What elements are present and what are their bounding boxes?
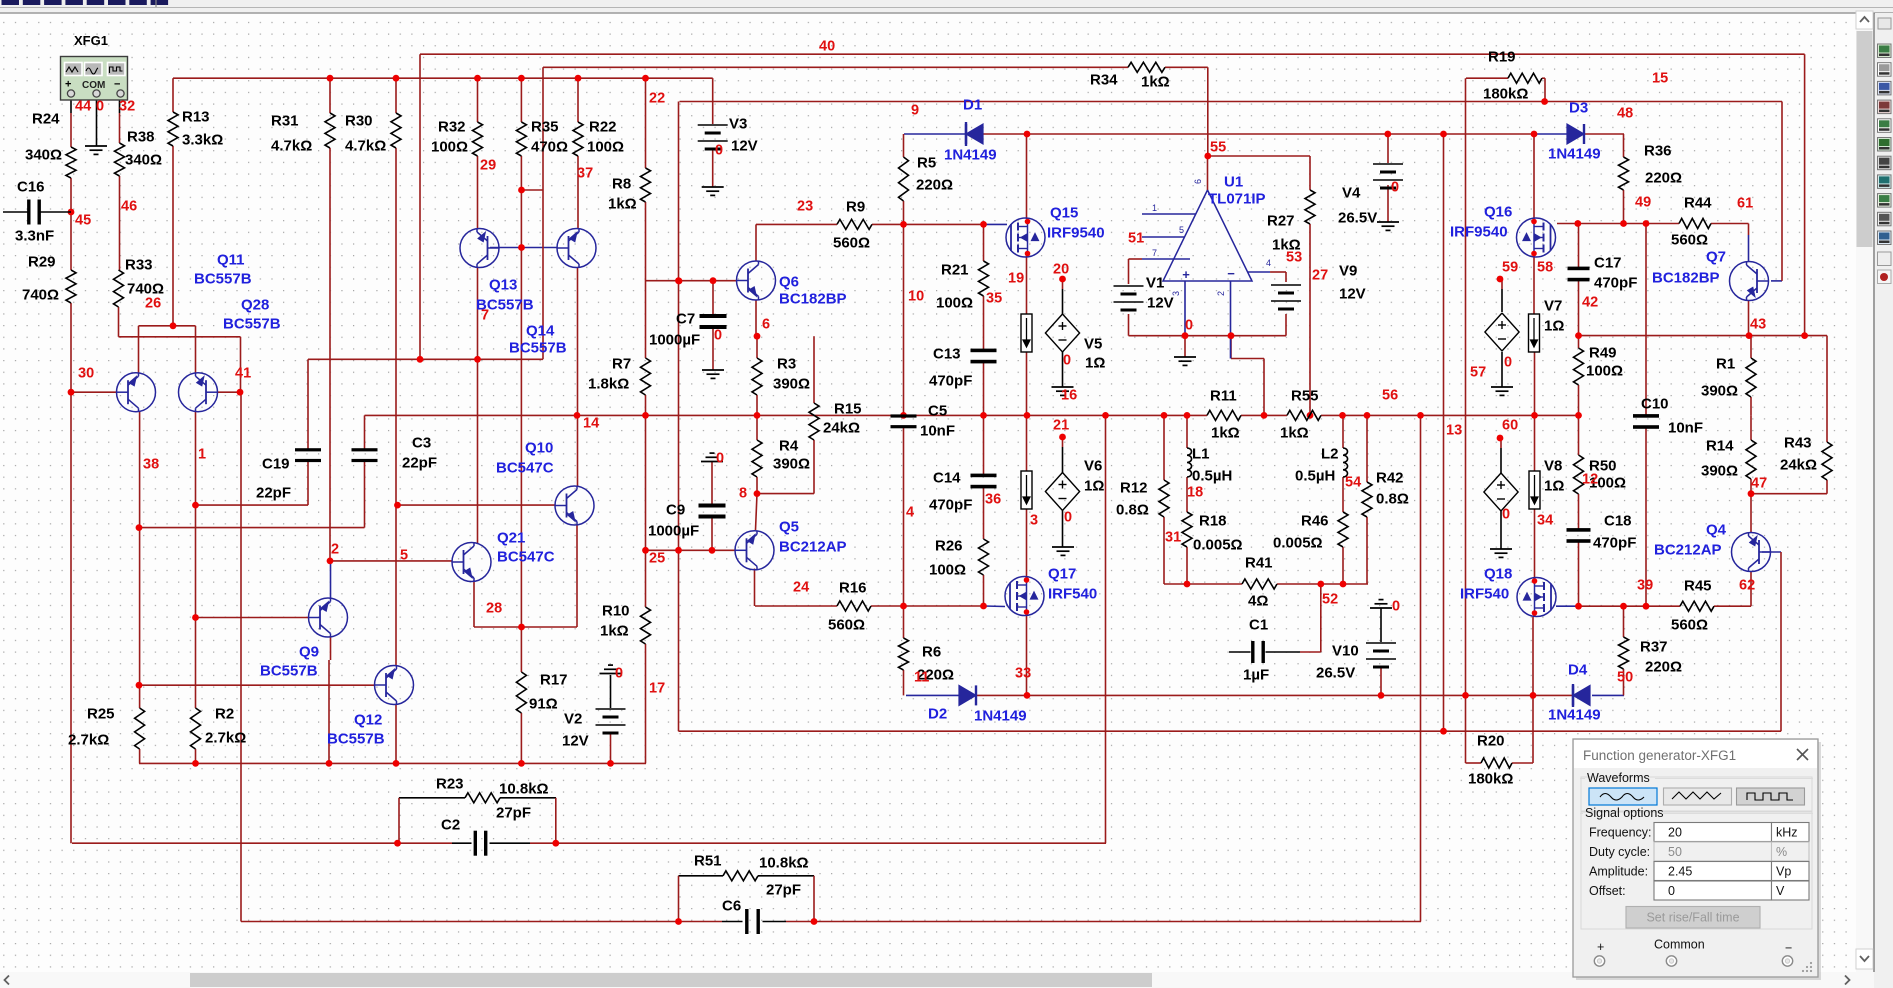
svg-text:BC557B: BC557B (223, 316, 281, 333)
svg-text:Offset:: Offset: (1589, 884, 1626, 898)
svg-text:C14: C14 (933, 470, 961, 487)
svg-text:R6: R6 (922, 644, 941, 661)
svg-text:BC182BP: BC182BP (1652, 270, 1720, 287)
svg-text:Q28: Q28 (241, 297, 269, 314)
svg-text:0: 0 (714, 327, 722, 343)
svg-text:25: 25 (649, 550, 665, 566)
svg-text:Q4: Q4 (1706, 522, 1727, 539)
svg-text:1N4149: 1N4149 (974, 708, 1027, 725)
svg-text:Q15: Q15 (1050, 205, 1078, 222)
svg-text:39: 39 (1637, 577, 1653, 593)
svg-text:Q13: Q13 (489, 277, 517, 294)
svg-text:0: 0 (1668, 884, 1675, 898)
svg-text:24: 24 (793, 579, 809, 595)
svg-text:Q12: Q12 (354, 712, 382, 729)
svg-text:0: 0 (615, 665, 623, 681)
svg-text:Q21: Q21 (497, 530, 525, 547)
svg-text:56: 56 (1382, 387, 1398, 403)
svg-text:40: 40 (819, 38, 835, 54)
svg-text:3.3kΩ: 3.3kΩ (182, 132, 223, 149)
svg-text:560Ω: 560Ω (833, 235, 870, 252)
svg-text:470pF: 470pF (929, 497, 972, 514)
svg-text:12V: 12V (562, 733, 589, 750)
svg-text:R38: R38 (127, 129, 155, 146)
svg-text:470pF: 470pF (1593, 535, 1636, 552)
svg-text:−: − (1785, 941, 1792, 955)
svg-text:100Ω: 100Ω (587, 139, 624, 156)
svg-text:0.5µH: 0.5µH (1295, 468, 1335, 485)
svg-text:22pF: 22pF (402, 455, 437, 472)
svg-text:R51: R51 (694, 853, 722, 870)
svg-text:R41: R41 (1245, 555, 1273, 572)
svg-text:27: 27 (1312, 267, 1328, 283)
svg-text:51: 51 (1128, 230, 1144, 246)
svg-text:V4: V4 (1342, 185, 1361, 202)
svg-text:R14: R14 (1706, 438, 1734, 455)
svg-text:390Ω: 390Ω (1701, 463, 1738, 480)
svg-text:R20: R20 (1477, 733, 1505, 750)
svg-text:V9: V9 (1339, 263, 1357, 280)
svg-text:0: 0 (1391, 179, 1399, 195)
svg-text:1.8kΩ: 1.8kΩ (588, 376, 629, 393)
svg-text:R12: R12 (1120, 480, 1148, 497)
svg-text:R18: R18 (1199, 513, 1227, 530)
svg-text:R43: R43 (1784, 435, 1812, 452)
svg-text:R15: R15 (834, 401, 862, 418)
svg-text:4.7kΩ: 4.7kΩ (271, 138, 312, 155)
svg-text:20: 20 (1668, 826, 1682, 840)
svg-text:0.005Ω: 0.005Ω (1273, 535, 1323, 552)
svg-text:13: 13 (1446, 422, 1462, 438)
svg-text:0: 0 (715, 142, 723, 158)
svg-text:0.005Ω: 0.005Ω (1193, 537, 1243, 554)
svg-text:R46: R46 (1301, 513, 1329, 530)
svg-text:V2: V2 (564, 711, 582, 728)
svg-text:26.5V: 26.5V (1316, 665, 1355, 682)
svg-text:4Ω: 4Ω (1248, 593, 1268, 610)
svg-text:0: 0 (1063, 352, 1071, 368)
svg-text:1N4149: 1N4149 (944, 147, 997, 164)
svg-text:BC557B: BC557B (194, 271, 252, 288)
svg-text:45: 45 (75, 212, 91, 228)
svg-text:3: 3 (1030, 512, 1038, 528)
svg-text:R25: R25 (87, 706, 115, 723)
svg-text:−: − (114, 79, 120, 91)
svg-text:R29: R29 (28, 254, 56, 271)
svg-text:10.8kΩ: 10.8kΩ (499, 781, 549, 798)
svg-text:Set rise/Fall time: Set rise/Fall time (1646, 911, 1739, 925)
svg-text:37: 37 (577, 165, 593, 181)
svg-text:R17: R17 (540, 672, 568, 689)
svg-text:Q9: Q9 (299, 644, 319, 661)
svg-text:Q17: Q17 (1048, 566, 1076, 583)
svg-text:2.45: 2.45 (1668, 865, 1692, 879)
svg-text:0: 0 (1504, 354, 1512, 370)
svg-text:U1: U1 (1224, 174, 1243, 191)
svg-text:24kΩ: 24kΩ (823, 420, 860, 437)
svg-text:BC182BP: BC182BP (779, 291, 847, 308)
svg-text:C3: C3 (412, 435, 431, 452)
svg-text:XFG1: XFG1 (74, 33, 108, 48)
svg-text:Q16: Q16 (1484, 204, 1512, 221)
svg-text:560Ω: 560Ω (828, 617, 865, 634)
svg-text:+: + (65, 79, 71, 91)
svg-text:R33: R33 (125, 257, 153, 274)
svg-text:D3: D3 (1569, 100, 1588, 117)
svg-text:560Ω: 560Ω (1671, 232, 1708, 249)
svg-text:7: 7 (1152, 248, 1157, 258)
svg-text:1Ω: 1Ω (1544, 318, 1564, 335)
svg-text:2: 2 (331, 541, 339, 557)
svg-text:R19: R19 (1488, 49, 1516, 66)
svg-text:BC557B: BC557B (327, 731, 385, 748)
svg-text:4: 4 (1266, 258, 1271, 268)
svg-text:Q10: Q10 (525, 440, 553, 457)
svg-text:C5: C5 (928, 403, 947, 420)
svg-text:R2: R2 (215, 706, 234, 723)
svg-text:7: 7 (481, 307, 489, 323)
svg-text:R21: R21 (941, 262, 969, 279)
svg-text:1kΩ: 1kΩ (1141, 74, 1170, 91)
svg-text:BC212AP: BC212AP (779, 539, 847, 556)
svg-text:IRF9540: IRF9540 (1047, 225, 1105, 242)
svg-text:R8: R8 (612, 176, 631, 193)
svg-text:50: 50 (1668, 845, 1682, 859)
svg-text:48: 48 (1617, 105, 1633, 121)
svg-text:0.8Ω: 0.8Ω (1376, 491, 1409, 508)
svg-text:2: 2 (1216, 291, 1226, 296)
svg-text:21: 21 (1053, 417, 1069, 433)
svg-text:2.7kΩ: 2.7kΩ (68, 732, 109, 749)
svg-text:50: 50 (1617, 669, 1633, 685)
svg-text:R31: R31 (271, 113, 299, 130)
svg-text:R32: R32 (438, 119, 466, 136)
svg-text:4: 4 (906, 504, 914, 520)
svg-text:390Ω: 390Ω (773, 376, 810, 393)
svg-text:12V: 12V (1147, 295, 1174, 312)
svg-text:43: 43 (1750, 316, 1766, 332)
svg-text:C18: C18 (1604, 513, 1632, 530)
svg-text:R24: R24 (32, 111, 60, 128)
svg-text:Signal options: Signal options (1585, 806, 1664, 820)
svg-text:5: 5 (1179, 225, 1184, 235)
svg-text:41: 41 (235, 365, 251, 381)
svg-text:Waveforms: Waveforms (1587, 771, 1650, 785)
svg-text:V1: V1 (1146, 275, 1164, 292)
svg-text:V7: V7 (1544, 298, 1562, 315)
svg-text:38: 38 (143, 456, 159, 472)
svg-text:D1: D1 (963, 97, 982, 114)
svg-text:32: 32 (119, 98, 135, 114)
svg-text:+: + (1182, 267, 1190, 282)
svg-text:R42: R42 (1376, 470, 1404, 487)
svg-text:R1: R1 (1716, 356, 1735, 373)
svg-text:%: % (1776, 845, 1787, 859)
svg-text:10: 10 (908, 288, 924, 304)
svg-text:11: 11 (914, 669, 929, 685)
svg-text:BC212AP: BC212AP (1654, 542, 1722, 559)
svg-text:6: 6 (762, 316, 770, 332)
svg-text:59: 59 (1502, 259, 1518, 275)
svg-text:47: 47 (1751, 475, 1767, 491)
svg-text:26: 26 (145, 295, 161, 311)
svg-text:Q11: Q11 (217, 252, 245, 269)
svg-text:180kΩ: 180kΩ (1483, 86, 1528, 103)
svg-text:C2: C2 (441, 817, 460, 834)
svg-text:1kΩ: 1kΩ (1211, 425, 1240, 442)
svg-text:33: 33 (1015, 665, 1031, 681)
svg-text:IRF540: IRF540 (1460, 586, 1509, 603)
svg-text:Q18: Q18 (1484, 566, 1512, 583)
svg-text:C19: C19 (262, 456, 290, 473)
svg-text:3.3nF: 3.3nF (15, 228, 54, 245)
svg-text:8: 8 (739, 485, 747, 501)
svg-text:55: 55 (1210, 139, 1226, 155)
svg-text:17: 17 (649, 680, 665, 696)
svg-text:C16: C16 (17, 179, 45, 196)
svg-text:R26: R26 (935, 538, 963, 555)
svg-text:Amplitude:: Amplitude: (1589, 865, 1648, 879)
svg-text:C7: C7 (676, 311, 695, 328)
svg-text:60: 60 (1502, 417, 1518, 433)
svg-text:19: 19 (1008, 270, 1024, 286)
svg-text:220Ω: 220Ω (916, 177, 953, 194)
svg-text:340Ω: 340Ω (25, 147, 62, 164)
svg-text:BC547C: BC547C (496, 460, 554, 477)
svg-text:42: 42 (1582, 294, 1598, 310)
svg-text:R23: R23 (436, 776, 464, 793)
svg-text:R5: R5 (917, 155, 936, 172)
svg-text:470Ω: 470Ω (531, 139, 568, 156)
svg-text:24kΩ: 24kΩ (1780, 457, 1817, 474)
svg-text:470pF: 470pF (929, 373, 972, 390)
svg-text:10.8kΩ: 10.8kΩ (759, 855, 809, 872)
svg-text:1Ω: 1Ω (1544, 478, 1564, 495)
svg-text:IRF9540: IRF9540 (1450, 224, 1508, 241)
svg-text:V5: V5 (1084, 336, 1102, 353)
svg-text:390Ω: 390Ω (1701, 383, 1738, 400)
svg-text:V10: V10 (1332, 643, 1359, 660)
svg-text:1kΩ: 1kΩ (1280, 425, 1309, 442)
svg-text:V6: V6 (1084, 458, 1102, 475)
svg-text:D2: D2 (928, 706, 947, 723)
svg-text:10nF: 10nF (1668, 420, 1703, 437)
svg-text:Q6: Q6 (779, 274, 799, 291)
svg-text:35: 35 (986, 290, 1002, 306)
svg-text:R22: R22 (589, 119, 617, 136)
svg-text:R45: R45 (1684, 578, 1712, 595)
svg-text:R34: R34 (1090, 72, 1118, 89)
svg-text:0: 0 (1502, 506, 1510, 522)
svg-text:20: 20 (1053, 261, 1069, 277)
svg-text:1kΩ: 1kΩ (600, 623, 629, 640)
svg-text:62: 62 (1739, 577, 1755, 593)
svg-text:R11: R11 (1210, 388, 1237, 405)
svg-text:46: 46 (121, 198, 137, 214)
svg-text:12V: 12V (731, 138, 758, 155)
svg-text:IRF540: IRF540 (1048, 586, 1097, 603)
svg-text:27pF: 27pF (496, 805, 531, 822)
svg-text:100Ω: 100Ω (431, 139, 468, 156)
svg-text:1: 1 (198, 446, 206, 462)
svg-text:BC557B: BC557B (509, 340, 567, 357)
svg-text:28: 28 (486, 600, 502, 616)
svg-text:R35: R35 (531, 119, 559, 136)
svg-text:52: 52 (1322, 591, 1338, 607)
svg-text:1N4149: 1N4149 (1548, 707, 1601, 724)
svg-text:1kΩ: 1kΩ (608, 196, 637, 213)
svg-text:9: 9 (911, 102, 919, 118)
svg-text:22: 22 (649, 90, 665, 106)
svg-text:30: 30 (78, 365, 94, 381)
svg-text:R44: R44 (1684, 195, 1712, 212)
svg-text:C9: C9 (666, 502, 685, 519)
svg-text:390Ω: 390Ω (773, 456, 810, 473)
svg-text:R16: R16 (839, 580, 867, 597)
svg-text:15: 15 (1652, 70, 1668, 86)
svg-text:100Ω: 100Ω (936, 295, 973, 312)
svg-text:−: − (1227, 266, 1235, 281)
svg-text:R30: R30 (345, 113, 373, 130)
svg-text:Function generator-XFG1: Function generator-XFG1 (1583, 748, 1736, 763)
svg-text:0: 0 (716, 450, 724, 466)
svg-text:12V: 12V (1339, 286, 1366, 303)
svg-text:Q5: Q5 (779, 519, 799, 536)
svg-text:0.8Ω: 0.8Ω (1116, 502, 1149, 519)
svg-text:Duty cycle:: Duty cycle: (1589, 845, 1650, 859)
svg-text:22pF: 22pF (256, 485, 291, 502)
svg-text:L2: L2 (1321, 446, 1339, 463)
svg-text:26.5V: 26.5V (1338, 210, 1377, 227)
svg-text:49: 49 (1635, 194, 1651, 210)
svg-text:1Ω: 1Ω (1085, 355, 1105, 372)
svg-text:180kΩ: 180kΩ (1468, 771, 1513, 788)
svg-text:100Ω: 100Ω (1586, 363, 1623, 380)
svg-text:C17: C17 (1594, 255, 1622, 272)
svg-text:R55: R55 (1291, 388, 1319, 405)
svg-text:1µF: 1µF (1243, 667, 1269, 684)
svg-text:C10: C10 (1641, 396, 1669, 413)
svg-text:36: 36 (985, 491, 1001, 507)
svg-text:18: 18 (1187, 484, 1203, 500)
svg-text:340Ω: 340Ω (125, 152, 162, 169)
svg-text:44: 44 (75, 98, 91, 114)
svg-text:V3: V3 (729, 116, 747, 133)
svg-text:4.7kΩ: 4.7kΩ (345, 138, 386, 155)
svg-text:57: 57 (1470, 364, 1486, 380)
svg-text:R13: R13 (182, 109, 210, 126)
svg-text:31: 31 (1165, 529, 1181, 545)
svg-text:L1: L1 (1192, 446, 1210, 463)
svg-text:12: 12 (1582, 471, 1598, 487)
svg-text:91Ω: 91Ω (529, 696, 558, 713)
svg-text:R49: R49 (1589, 345, 1617, 362)
svg-text:BC547C: BC547C (497, 549, 555, 566)
svg-text:R9: R9 (846, 199, 865, 216)
svg-text:560Ω: 560Ω (1671, 617, 1708, 634)
svg-text:R37: R37 (1640, 639, 1668, 656)
svg-text:220Ω: 220Ω (1645, 170, 1682, 187)
svg-text:C1: C1 (1249, 617, 1268, 634)
svg-text:53: 53 (1286, 249, 1302, 265)
svg-text:0: 0 (1064, 509, 1072, 525)
svg-text:Common: Common (1654, 938, 1705, 952)
svg-text:0: 0 (1392, 598, 1400, 614)
svg-text:D4: D4 (1568, 662, 1588, 679)
svg-text:V: V (1776, 884, 1785, 898)
svg-text:740Ω: 740Ω (22, 287, 59, 304)
svg-text:Frequency:: Frequency: (1589, 826, 1652, 840)
svg-text:1N4149: 1N4149 (1548, 146, 1601, 163)
svg-text:R7: R7 (612, 356, 631, 373)
svg-text:BC557B: BC557B (260, 663, 318, 680)
svg-text:R27: R27 (1267, 213, 1295, 230)
svg-text:0: 0 (96, 98, 104, 114)
svg-text:6: 6 (1193, 179, 1203, 184)
svg-text:470pF: 470pF (1594, 275, 1637, 292)
svg-text:14: 14 (583, 415, 599, 431)
svg-text:Q14: Q14 (526, 323, 555, 340)
svg-text:TL071IP: TL071IP (1208, 191, 1266, 208)
svg-text:COM: COM (82, 80, 105, 91)
svg-text:Vp: Vp (1776, 865, 1791, 879)
svg-text:34: 34 (1537, 512, 1553, 528)
svg-text:+: + (1597, 940, 1604, 954)
svg-text:10nF: 10nF (920, 423, 955, 440)
svg-text:220Ω: 220Ω (1645, 659, 1682, 676)
svg-text:23: 23 (797, 198, 813, 214)
svg-text:R36: R36 (1644, 143, 1672, 160)
svg-text:R4: R4 (779, 438, 799, 455)
svg-text:R3: R3 (777, 356, 796, 373)
svg-text:100Ω: 100Ω (929, 562, 966, 579)
svg-text:0: 0 (1185, 317, 1193, 333)
svg-text:29: 29 (480, 157, 496, 173)
svg-text:kHz: kHz (1776, 826, 1798, 840)
svg-text:2.7kΩ: 2.7kΩ (205, 730, 246, 747)
svg-text:27pF: 27pF (766, 882, 801, 899)
svg-text:58: 58 (1537, 259, 1553, 275)
svg-text:0.5µH: 0.5µH (1192, 468, 1232, 485)
svg-text:C6: C6 (722, 898, 741, 915)
svg-text:1000µF: 1000µF (648, 523, 699, 540)
svg-text:61: 61 (1737, 195, 1753, 211)
svg-text:1000µF: 1000µF (649, 332, 700, 349)
svg-text:16: 16 (1061, 387, 1077, 403)
svg-text:54: 54 (1345, 474, 1361, 490)
svg-text:Q7: Q7 (1706, 249, 1726, 266)
svg-text:1: 1 (1152, 203, 1157, 213)
svg-text:C13: C13 (933, 346, 961, 363)
svg-text:5: 5 (400, 547, 408, 563)
svg-text:1Ω: 1Ω (1084, 478, 1104, 495)
svg-text:V8: V8 (1544, 458, 1562, 475)
svg-text:R10: R10 (602, 603, 630, 620)
